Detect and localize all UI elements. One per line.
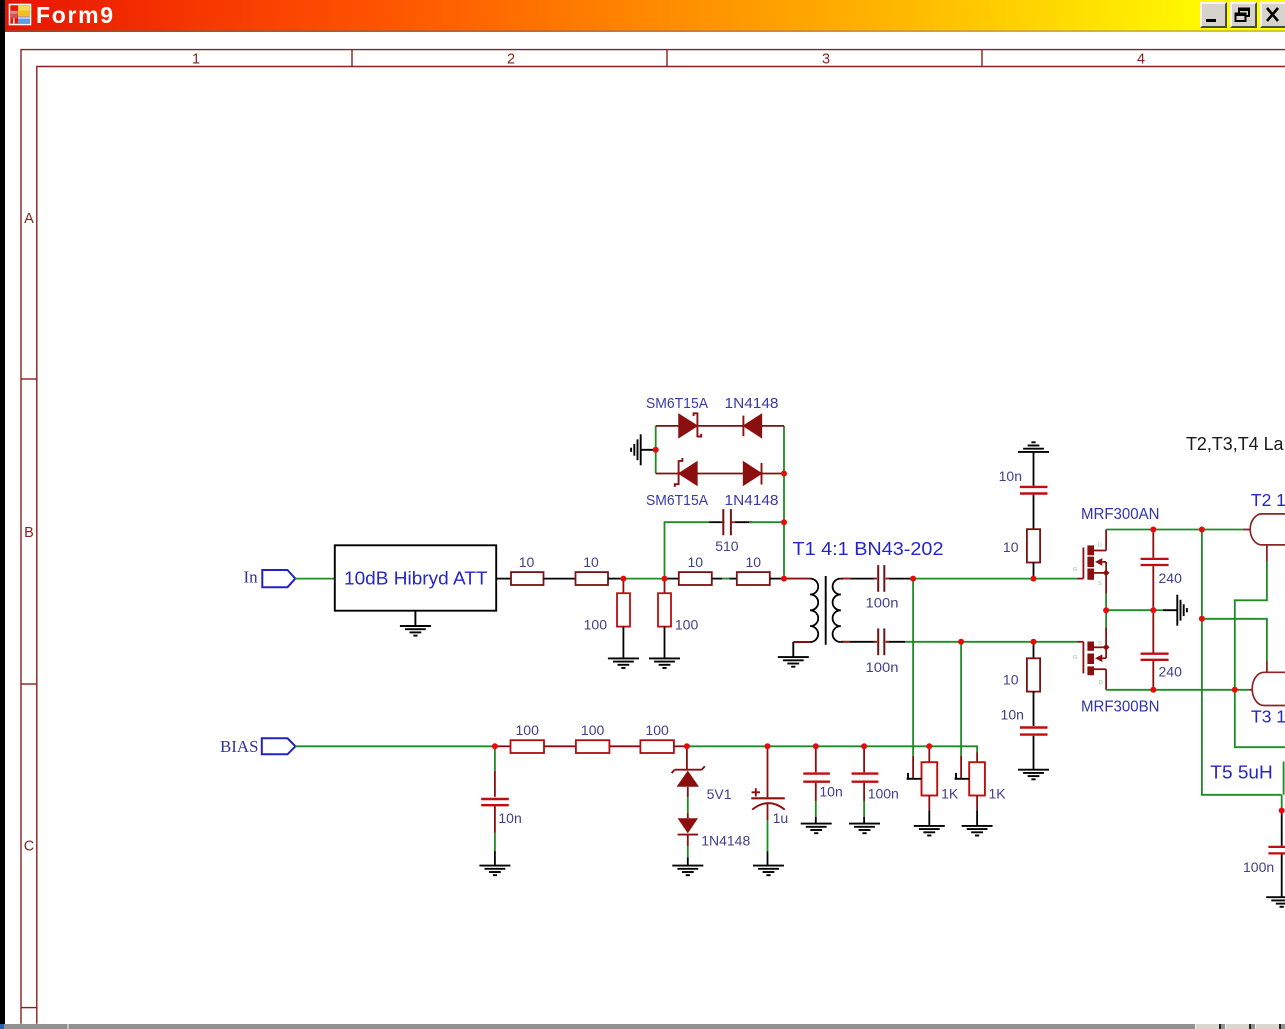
svg-text:1N4148: 1N4148 — [725, 395, 779, 412]
capacitor 100n right pin top — [1281, 811, 1283, 846]
capacitor 1u pin top — [767, 746, 769, 797]
svg-text:10n: 10n — [1001, 707, 1024, 723]
T1 secondary coil — [833, 579, 841, 642]
svg-text:100: 100 — [581, 722, 605, 738]
svg-text:10: 10 — [1003, 539, 1019, 555]
svg-text:MRF300BN: MRF300BN — [1081, 699, 1160, 716]
capacitor 10n gate2 — [1020, 728, 1048, 735]
capacitor 100n bottom — [878, 628, 884, 655]
svg-text:G: G — [1073, 567, 1078, 573]
frame row tick C-D — [21, 1007, 37, 1009]
resistor 10 #1 — [511, 572, 544, 585]
capacitor 100n right pin bottom — [1281, 855, 1283, 897]
diode 1N4148 bias — [678, 818, 698, 834]
trimmer 1K #1 — [922, 762, 938, 795]
wire net1 node4 to gate column — [913, 578, 1033, 580]
diode SM6T15A bottom (TVS) — [675, 458, 697, 487]
T3 top pin — [1266, 661, 1268, 672]
wire bottom row to right bus — [762, 473, 785, 475]
wire bottom diode row left — [656, 473, 679, 475]
wire top row to right bus — [761, 425, 784, 427]
capacitor 10n gate2 pin bottom — [1033, 736, 1035, 769]
capacitor 240 #1 pin top — [1152, 530, 1154, 558]
frame column tick 1-2 — [351, 50, 353, 67]
svg-text:10: 10 — [746, 554, 762, 570]
svg-text:T2 10: T2 10 — [1251, 490, 1285, 510]
ground stem at diode bus — [641, 449, 656, 451]
svg-text:10: 10 — [1003, 672, 1019, 688]
wire R7 to zener node — [674, 745, 687, 747]
resistor 100 vertical #2 pin bottom — [664, 627, 666, 658]
T1 primary coil — [810, 579, 818, 642]
svg-text:T3 10: T3 10 — [1251, 707, 1285, 727]
wire In to box — [295, 578, 335, 580]
wire box to R1 — [496, 578, 511, 580]
resistor 10 gate2 pin top — [1033, 642, 1035, 659]
trimmer 1K #2 pin bottom — [976, 796, 978, 811]
svg-text:100n: 100n — [866, 594, 899, 610]
capacitor 100n bias — [852, 774, 879, 782]
wire 510 to right bus — [749, 521, 784, 523]
svg-text:MRF300AN: MRF300AN — [1081, 506, 1160, 523]
capacitor 240 #2 pin bottom — [1152, 661, 1154, 690]
svg-text:2: 2 — [507, 51, 515, 67]
diode 1N4148 top — [743, 415, 761, 437]
frame column tick 2-3 — [666, 50, 668, 67]
ground under gate2 column — [1018, 770, 1049, 780]
svg-text:10n: 10n — [819, 784, 842, 800]
svg-text:1N4148: 1N4148 — [725, 492, 779, 509]
form icon — [10, 5, 31, 25]
drain2 net — [1106, 689, 1249, 691]
svg-text:100: 100 — [645, 722, 669, 738]
wire top diode row — [656, 425, 680, 427]
ground under 10n bias2 — [801, 824, 832, 834]
capacitor 240 #1 pin bottom — [1152, 566, 1154, 610]
ground under box — [400, 626, 431, 636]
resistor 100 bias #1 — [511, 740, 545, 753]
junction dots — [492, 447, 1285, 814]
wire BIAS to node — [295, 745, 495, 747]
capacitor 10n bias pin top — [494, 746, 496, 771]
svg-text:T1 4:1 BN43-202: T1 4:1 BN43-202 — [793, 539, 944, 559]
resistor 100 bias #3 — [640, 740, 674, 753]
ground under 1K #1 — [914, 826, 945, 836]
svg-text:10: 10 — [583, 554, 599, 570]
capacitor 10n bias2 pin bottom — [815, 783, 817, 801]
riser node2 up to 510 — [665, 522, 710, 578]
wire R2 to node1 — [608, 578, 623, 580]
wire R5 to R6 — [544, 745, 576, 747]
capacitor 100n right — [1268, 847, 1285, 854]
ground under 1N4148 — [672, 866, 703, 876]
resistor 10 #2 — [576, 572, 609, 585]
resistor 10 gate1 — [1027, 529, 1040, 562]
svg-text:B: B — [24, 525, 34, 541]
T1 secondary bottom lead — [841, 641, 877, 643]
resistor 100 vertical #1 pin top — [622, 579, 624, 594]
svg-text:10: 10 — [519, 554, 535, 570]
Q2 pin letters — [1073, 641, 1103, 686]
svg-text:5V1: 5V1 — [707, 786, 732, 802]
svg-text:100: 100 — [675, 616, 699, 632]
resistor 100 vertical #1 pin bottom — [622, 627, 624, 658]
capacitor 510 lead right — [732, 521, 736, 523]
diode network right bus — [783, 426, 785, 579]
trimmer 1K #2 — [969, 762, 985, 795]
svg-text:S: S — [1098, 641, 1102, 647]
T1 core — [825, 576, 827, 645]
resistor 100 vertical #1 — [617, 593, 630, 626]
T1 secondary top lead — [841, 578, 877, 580]
capacitor 1u pin bottom — [767, 803, 769, 821]
wire T2 bottom to T5 feed — [1235, 562, 1285, 748]
transistor Q2 MRF300BN — [1078, 628, 1110, 690]
transformer T2 capsule — [1250, 514, 1285, 545]
T3 left pin — [1249, 689, 1253, 691]
svg-text:240: 240 — [1159, 570, 1183, 586]
frame row tick A-B — [21, 378, 37, 380]
svg-text:In: In — [244, 568, 259, 587]
ground bottom right — [1266, 897, 1285, 907]
capacitor 100n bottom lead right — [886, 641, 905, 643]
resistor 100 vertical #2 pin top — [664, 579, 666, 594]
svg-text:1u: 1u — [773, 810, 789, 826]
trimmer 1K #1 pin bottom — [928, 796, 930, 811]
ground under 1u — [753, 866, 784, 876]
ground top of gate1 column (up-facing) — [1018, 442, 1049, 452]
svg-text:G: G — [1073, 655, 1078, 661]
zener diode 5V1 — [672, 766, 705, 787]
resistor 100 bias #2 — [576, 740, 610, 753]
svg-text:10n: 10n — [498, 810, 521, 826]
svg-text:D: D — [1098, 542, 1102, 548]
svg-text:4: 4 — [1137, 51, 1145, 67]
capacitor 510 — [723, 509, 731, 535]
wire between top diodes — [698, 425, 743, 427]
svg-text:10n: 10n — [999, 468, 1022, 484]
wire R4 to node3 — [770, 578, 784, 580]
zener 5V1 pin top — [686, 746, 688, 769]
wire node2 to R3 — [665, 578, 679, 580]
frame column tick 3-4 — [981, 50, 983, 67]
ground right-facing mid — [1177, 595, 1187, 626]
diode network left bus — [655, 426, 657, 474]
trimmer 1K #2 wiper — [960, 756, 962, 778]
port BIAS — [262, 738, 296, 754]
svg-text:1K: 1K — [941, 786, 959, 802]
svg-text:10: 10 — [688, 554, 704, 570]
resistor 10 gate2 pin bottom — [1033, 692, 1035, 726]
mid ground stem — [1163, 609, 1177, 611]
svg-text:510: 510 — [715, 538, 739, 554]
T1 primary lead — [784, 578, 810, 580]
ground left-facing at diode bus — [631, 434, 641, 465]
svg-text:100n: 100n — [868, 786, 899, 802]
capacitor 10n bias pin bottom — [494, 806, 496, 833]
gate bias riser 2 — [960, 642, 962, 756]
wire drain1 node down to bottom rail — [1202, 530, 1282, 795]
svg-text:10dB Hibryd ATT: 10dB Hibryd ATT — [344, 569, 488, 589]
ground under T1 — [778, 657, 809, 667]
svg-text:A: A — [24, 211, 34, 227]
wire between bottom diodes — [697, 473, 744, 475]
svg-text:D: D — [1099, 680, 1103, 686]
T1 ground pin — [792, 642, 794, 657]
wire R6 to R7 — [609, 745, 640, 747]
zener to diode wire — [687, 787, 689, 797]
svg-text:T2,T3,T4 La: T2,T3,T4 La — [1186, 434, 1284, 454]
diode 1N4148 bottom — [744, 463, 762, 485]
svg-text:100n: 100n — [1243, 859, 1274, 875]
resistor 10 gate2 — [1027, 658, 1040, 691]
trimmer 1K #1 wiper — [912, 756, 914, 778]
svg-text:1: 1 — [192, 51, 200, 67]
capacitor 100n top lead right — [886, 578, 913, 580]
trimmer 1K #1 pin top — [928, 746, 930, 762]
box 10dB Hibryd ATT — [335, 545, 496, 610]
wire net2 — [905, 641, 961, 643]
svg-text:100n: 100n — [866, 659, 899, 675]
drain1 net — [1106, 529, 1243, 531]
resistor 100 vertical #2 — [658, 593, 671, 626]
svg-text:240: 240 — [1159, 664, 1183, 680]
T1 primary bottom lead — [793, 641, 810, 643]
capacitor 240 #2 pin top — [1152, 610, 1154, 652]
svg-text:T5 5uH: T5 5uH — [1210, 763, 1273, 783]
transformer T3 capsule — [1252, 672, 1285, 705]
svg-text:1N4148: 1N4148 — [701, 833, 750, 849]
Q1 pin letters — [1073, 542, 1102, 587]
ground under 1K #2 — [962, 826, 993, 836]
svg-text:3: 3 — [822, 51, 830, 67]
box ground pin — [414, 611, 416, 626]
pin 10n to R10 gate1 — [1033, 495, 1035, 530]
capacitor 1u electrolytic — [751, 797, 785, 799]
mid net — [1106, 609, 1153, 611]
resistor 10 #4 — [737, 572, 770, 585]
T5 left pin — [1283, 762, 1285, 795]
capacitor 10n bias2 pin top — [815, 746, 817, 772]
wire node1 to node2 — [623, 578, 664, 580]
wire node 618 to T3 top — [1202, 619, 1267, 661]
resistor 100 bias #1 lead — [495, 745, 511, 747]
wire R1 to R2 — [544, 578, 576, 580]
gate bias riser 1 — [912, 579, 914, 756]
resistor 10 gate1 pin bottom — [1033, 563, 1035, 579]
trimmer 1K #2 pin top — [976, 753, 978, 763]
transistor Q1 MRF300AN — [1078, 530, 1110, 594]
port In — [262, 570, 295, 587]
T2 bottom pin — [1266, 545, 1268, 562]
capacitor 1u plus sign — [752, 788, 760, 796]
capacitor 10n gate1 — [1020, 487, 1048, 494]
resistor 10 #3 — [679, 572, 712, 585]
capacitor 510 lead left — [709, 521, 722, 523]
wire R3 to R4 — [712, 578, 723, 580]
capacitor 100n bias pin top — [863, 746, 865, 772]
pin ground to 10n — [1033, 452, 1035, 486]
T2 left pin — [1243, 529, 1250, 531]
svg-text:BIAS: BIAS — [220, 737, 259, 756]
ground under R100 #2 — [649, 658, 680, 668]
capacitor 10n bias2 — [803, 774, 830, 782]
diode SM6T15A top (TVS) — [679, 413, 701, 438]
Q2 source wire up — [1105, 610, 1107, 627]
diode bias pin bottom — [687, 836, 689, 847]
svg-text:SM6T15A: SM6T15A — [646, 395, 708, 412]
capacitor 100n bias pin bottom — [863, 783, 865, 801]
frame row tick B-C — [21, 683, 37, 685]
capacitor 10n bias — [481, 799, 509, 805]
svg-text:1K: 1K — [989, 786, 1007, 802]
Q1 source wire down — [1105, 594, 1107, 611]
capacitor 240 #1 — [1141, 559, 1169, 565]
capacitor 100n top — [878, 565, 884, 592]
svg-text:S: S — [1098, 581, 1102, 587]
svg-text:100: 100 — [584, 616, 608, 632]
wire bottom rail to 100n — [1281, 795, 1283, 811]
svg-text:100: 100 — [516, 722, 540, 738]
ground under 10n bias — [479, 866, 510, 876]
ground under 100n bias — [849, 824, 880, 834]
bias net — [687, 746, 977, 752]
capacitor 240 #2 — [1141, 654, 1169, 660]
ground under R100 #1 — [608, 658, 639, 668]
svg-text:C: C — [24, 838, 34, 854]
svg-text:SM6T15A: SM6T15A — [646, 492, 708, 509]
